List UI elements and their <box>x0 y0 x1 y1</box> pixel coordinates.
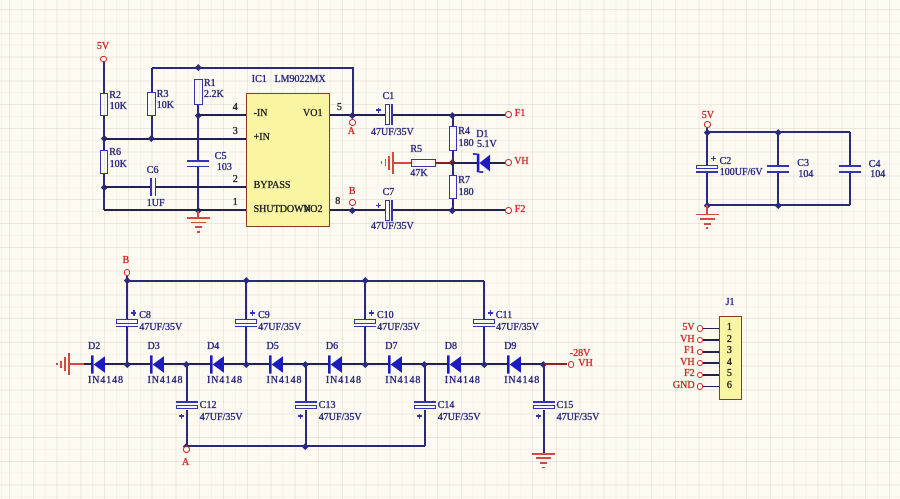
wire <box>849 132 851 165</box>
label D6 <box>326 342 338 352</box>
wire <box>394 162 411 164</box>
label C4 <box>869 160 881 170</box>
wire <box>197 105 199 115</box>
label C13 <box>319 401 336 411</box>
junction <box>302 361 308 367</box>
label C6 <box>147 166 159 176</box>
value 47UF/35V <box>371 222 414 232</box>
wire <box>126 281 128 320</box>
wire <box>424 410 426 446</box>
value 47UF/35V <box>371 128 414 138</box>
wire <box>156 186 246 188</box>
value IN4148 <box>148 376 184 386</box>
value 47UF/35V <box>319 413 362 423</box>
capacitor C9 <box>235 319 257 324</box>
pin label BYPASS <box>254 181 291 191</box>
wire <box>245 327 247 364</box>
wire <box>543 410 545 453</box>
port F1 <box>697 349 703 355</box>
value IN4148 <box>504 376 540 386</box>
capacitor C8 <box>116 319 138 324</box>
pin number 1 <box>727 323 732 333</box>
pin label -IN <box>254 109 268 119</box>
wire <box>103 174 105 187</box>
junction <box>243 277 249 283</box>
diode D6 <box>328 355 343 374</box>
junction <box>775 129 781 135</box>
wire diode row <box>224 363 270 365</box>
wire bottom rail <box>187 445 425 447</box>
diode D3 <box>150 355 165 374</box>
value 10K <box>110 160 127 170</box>
wire <box>197 167 199 210</box>
value 10K <box>110 102 127 112</box>
wire <box>452 115 454 126</box>
value 47UF/35V <box>258 323 301 333</box>
wire <box>305 364 307 401</box>
node B <box>349 207 355 213</box>
wire <box>703 386 719 388</box>
label C3 <box>797 159 809 169</box>
capacitor C5 <box>187 160 209 162</box>
wire <box>70 363 84 365</box>
junction <box>775 202 781 208</box>
wire <box>364 327 366 364</box>
value 100UF/6V <box>720 168 763 178</box>
wire <box>452 199 454 210</box>
capacitor C15 <box>533 401 555 403</box>
pin number 1 <box>178 198 238 208</box>
wire <box>706 132 708 165</box>
value 47UF/35V <box>377 323 420 333</box>
diode D9 <box>507 355 522 374</box>
junction <box>183 443 189 449</box>
junction <box>101 184 107 190</box>
pin number 3 <box>178 127 238 137</box>
wire diode row <box>105 363 151 365</box>
diode D1 zener <box>472 152 491 174</box>
label D4 <box>207 342 219 352</box>
ground <box>392 152 394 174</box>
port VH <box>697 337 703 343</box>
value 180 <box>459 188 474 198</box>
power port 5V <box>702 111 714 121</box>
wire <box>452 163 454 175</box>
capacitor C14 <box>414 401 436 403</box>
wire <box>483 281 485 320</box>
wire top rail <box>152 67 354 69</box>
resistor R6 <box>100 150 109 174</box>
label D7 <box>385 342 397 352</box>
connector J1 body <box>719 316 742 399</box>
node B <box>123 256 130 266</box>
value 2.2K <box>204 90 224 100</box>
value 47UF/35V <box>139 323 182 333</box>
wire <box>703 374 719 376</box>
pin number 8 <box>335 197 340 207</box>
value LM9022MX <box>275 75 326 85</box>
port F2 <box>697 372 703 378</box>
wire <box>353 114 386 116</box>
pin number 5 <box>337 103 342 113</box>
junction <box>540 361 546 367</box>
wire <box>703 328 719 330</box>
wire <box>103 62 105 92</box>
pin number 2 <box>178 175 238 185</box>
resistor R5 <box>411 159 436 167</box>
wire <box>393 114 505 116</box>
capacitor C3 <box>767 165 789 167</box>
label C11 <box>496 311 512 321</box>
label R6 <box>109 148 121 158</box>
wire <box>777 132 779 165</box>
ground <box>532 453 555 455</box>
wire -IN row <box>198 114 246 116</box>
port F2 <box>505 207 512 214</box>
ground <box>706 205 708 214</box>
value 104 <box>870 170 885 180</box>
wire diode row <box>402 363 448 365</box>
label D3 <box>148 342 160 352</box>
pin number 3 <box>727 346 732 356</box>
value IN4148 <box>88 376 124 386</box>
diode D2 <box>91 355 106 374</box>
label D1 <box>476 130 488 140</box>
value 103 <box>217 163 232 173</box>
resistor R1 <box>194 79 203 105</box>
diode D7 <box>388 355 403 374</box>
wire <box>777 173 779 205</box>
wire <box>424 364 426 401</box>
capacitor C13 <box>295 401 317 403</box>
wire BYPASS row <box>104 186 150 188</box>
junction <box>148 135 154 141</box>
wire <box>849 173 851 205</box>
label C5 <box>215 152 227 162</box>
junction <box>302 443 308 449</box>
pin label VO1 <box>263 109 323 119</box>
wire +IN row <box>104 138 247 140</box>
port GND <box>697 383 703 389</box>
label D8 <box>445 342 457 352</box>
capacitor C12 <box>176 401 198 403</box>
wire <box>436 162 452 164</box>
diode D8 <box>447 355 462 374</box>
junction <box>195 112 201 118</box>
wire rail <box>707 204 850 206</box>
label D2 <box>88 342 100 352</box>
wire <box>126 327 128 364</box>
label J1 <box>726 298 735 308</box>
value 10K <box>157 101 174 111</box>
capacitor C1 <box>385 104 390 125</box>
wire <box>544 363 568 365</box>
wire <box>703 362 719 364</box>
value 1UF <box>147 199 165 209</box>
capacitor C7 <box>385 200 390 221</box>
wire VO1 row <box>330 114 352 116</box>
wire <box>703 339 719 341</box>
wire <box>103 187 105 211</box>
wire top rail <box>126 280 484 282</box>
port VH <box>505 159 512 166</box>
wire <box>151 116 153 139</box>
value 5.1V <box>477 140 497 150</box>
capacitor C11 <box>473 319 495 324</box>
value 47UF/35V <box>496 323 539 333</box>
junction <box>124 277 130 283</box>
pin label SHUTDOWN <box>254 205 311 215</box>
label C10 <box>377 311 394 321</box>
label D5 <box>267 342 279 352</box>
value 180 <box>459 139 474 149</box>
port VH -28V <box>568 361 575 368</box>
junction <box>243 361 249 367</box>
value 104 <box>798 170 813 180</box>
wire SHUTDOWN row <box>104 209 247 211</box>
wire <box>543 364 545 401</box>
junction <box>704 202 710 208</box>
pin label +IN <box>254 133 270 143</box>
value 47UF/35V <box>438 413 481 423</box>
wire <box>353 209 386 211</box>
wire <box>186 410 188 446</box>
wire <box>103 139 105 151</box>
pin number 4 <box>727 358 732 368</box>
op-amp U1 IC1 LM9022MX body <box>246 93 330 228</box>
label C15 <box>557 401 574 411</box>
wire <box>393 209 505 211</box>
label C1 <box>383 92 395 102</box>
pin number 2 <box>727 335 732 345</box>
junction <box>449 112 455 118</box>
wire <box>703 351 719 353</box>
junction <box>183 361 189 367</box>
label R2 <box>109 91 121 101</box>
pin number 5 <box>727 369 732 379</box>
junction <box>481 361 487 367</box>
junction <box>449 207 455 213</box>
wire diode row <box>521 363 544 365</box>
capacitor C10 <box>354 319 376 324</box>
junction <box>124 361 130 367</box>
value IN4148 <box>445 376 481 386</box>
wire <box>453 162 477 164</box>
capacitor C2 <box>696 165 718 170</box>
junction <box>421 361 427 367</box>
wire diode row <box>342 363 387 365</box>
node A <box>183 446 190 453</box>
wire diode row <box>283 363 328 365</box>
wire <box>706 173 708 205</box>
ground <box>68 353 70 375</box>
resistor R3 <box>147 92 156 116</box>
diode D5 <box>269 355 284 374</box>
capacitor C4 <box>839 165 861 167</box>
wire <box>126 276 128 281</box>
label C7 <box>383 188 395 198</box>
label R7 <box>458 176 470 186</box>
label C2 <box>720 157 732 167</box>
label R3 <box>157 90 169 100</box>
value IN4148 <box>267 376 303 386</box>
junction <box>101 135 107 141</box>
junction <box>704 129 710 135</box>
wire <box>490 162 505 164</box>
wire <box>452 151 454 163</box>
label IC1 <box>252 75 267 85</box>
port 5V <box>697 325 703 331</box>
wire <box>352 68 354 115</box>
wire diode row <box>461 363 506 365</box>
node A <box>349 112 355 118</box>
capacitor C6 <box>150 178 152 196</box>
wire <box>245 281 247 320</box>
port VH <box>697 360 703 366</box>
pin number 6 <box>727 381 732 391</box>
wire diode row <box>84 363 91 365</box>
wire diode row <box>164 363 210 365</box>
label R5 <box>410 145 422 155</box>
pin label VO2 <box>263 205 323 215</box>
pin number 4 <box>178 103 238 113</box>
junction <box>195 207 201 213</box>
value 47UF/35V <box>200 413 243 423</box>
resistor R4 <box>449 126 457 150</box>
label C14 <box>438 401 455 411</box>
label C12 <box>200 401 217 411</box>
wire <box>151 68 153 93</box>
wire rail <box>707 131 850 133</box>
value IN4148 <box>207 376 243 386</box>
value 47K <box>410 169 427 179</box>
junction <box>449 159 455 165</box>
value IN4148 <box>326 376 362 386</box>
junction <box>362 361 368 367</box>
label C9 <box>258 311 270 321</box>
diode D4 <box>210 355 225 374</box>
junction <box>195 64 201 70</box>
resistor R2 <box>100 93 109 117</box>
label R4 <box>458 127 470 137</box>
value 47UF/35V <box>557 413 600 423</box>
wire VO2 row <box>330 209 352 211</box>
ground <box>197 210 199 217</box>
value IN4148 <box>385 376 421 386</box>
wire <box>186 364 188 401</box>
wire <box>483 327 485 364</box>
port F1 <box>505 111 512 118</box>
power port 5V <box>97 42 109 52</box>
wire <box>364 281 366 320</box>
wire <box>103 116 105 139</box>
label R1 <box>204 79 216 89</box>
label C8 <box>139 311 151 321</box>
wire <box>305 410 307 446</box>
wire <box>197 115 199 160</box>
wire <box>706 128 708 132</box>
junction <box>449 207 455 213</box>
junction <box>362 277 368 283</box>
label D9 <box>504 342 516 352</box>
resistor R7 <box>449 175 457 199</box>
